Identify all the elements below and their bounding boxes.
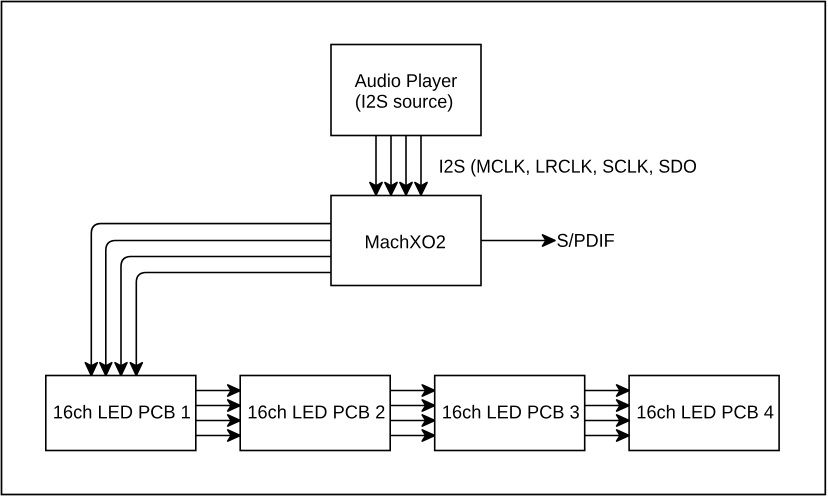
box: MachXO2: [331, 196, 481, 286]
box: 16ch LED PCB 3: [435, 376, 585, 451]
box: Audio Player (I2S source): [331, 45, 481, 136]
label: S/PDIF: [557, 233, 614, 247]
label: I2S bus: [440, 159, 696, 176]
wires: PCB3 to PCB4 (4 arrows): [585, 385, 629, 441]
wires: PCB2 to PCB3 (4 arrows): [390, 385, 435, 441]
wire: I2S line 4: [415, 136, 427, 196]
wire: I2S line 1 (Audio Player to MachXO2): [370, 136, 382, 196]
box: 16ch LED PCB 1: [46, 376, 196, 451]
wire: MachXO2 to PCB1 line 1: [85, 224, 331, 376]
wire: I2S line 3: [400, 136, 412, 196]
box: 16ch LED PCB 2: [240, 376, 390, 451]
wire: MachXO2 to PCB1 line 3: [115, 257, 331, 376]
wire: MachXO2 to PCB1 line 4: [130, 273, 331, 376]
wires: PCB1 to PCB2 (4 arrows): [196, 385, 240, 441]
box: 16ch LED PCB 4: [629, 376, 779, 451]
wire: MachXO2 to PCB1 line 2: [100, 241, 331, 376]
wire: I2S line 2: [385, 136, 397, 196]
wire: S/PDIF arrow: [481, 235, 555, 246]
